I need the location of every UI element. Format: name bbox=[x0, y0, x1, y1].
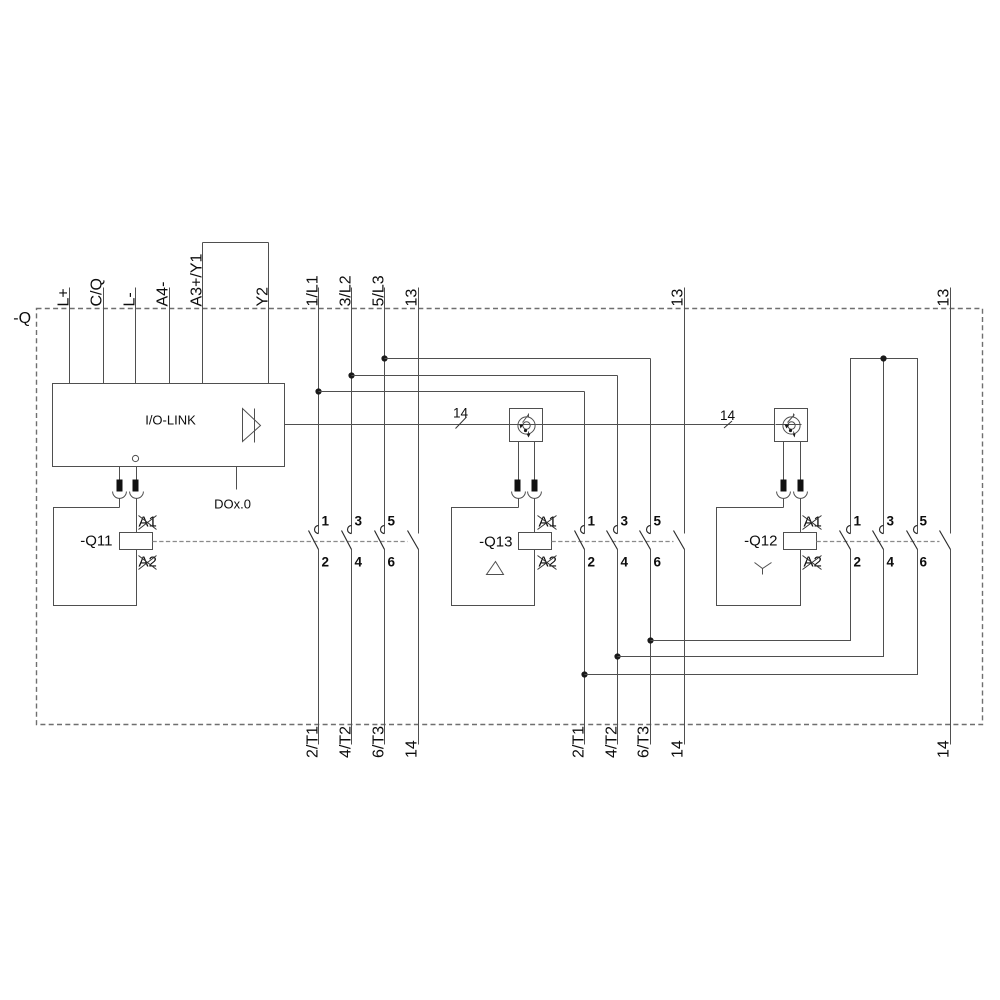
phase wire 2/T1 bottom bbox=[318, 550, 320, 745]
phase wire 4/T2 bottom Q13 bbox=[617, 550, 619, 745]
node dot 1/L1 bbox=[315, 388, 321, 394]
Q12 contact 1-2 bbox=[840, 526, 851, 550]
enclosure dashed boundary -Q bbox=[37, 309, 983, 725]
Q13 contact 1-2 bbox=[575, 526, 585, 550]
star bridge middle wire bbox=[883, 359, 885, 534]
svg-text:4/T2: 4/T2 bbox=[604, 726, 621, 758]
Q11 aux contact 13-14 bbox=[408, 531, 419, 550]
Q12 contact 3-4 bbox=[873, 526, 884, 550]
svg-text:-Q13: -Q13 bbox=[479, 534, 512, 551]
phase wire 4/T2 bottom bbox=[351, 550, 353, 745]
svg-text:5: 5 bbox=[388, 514, 396, 529]
svg-text:A3+/Y1: A3+/Y1 bbox=[189, 253, 206, 306]
wire loop to coil Q11 A2 bbox=[54, 508, 137, 606]
node dot Q13 4/T2 bbox=[614, 653, 620, 659]
terminal label A2 crossed bbox=[538, 554, 557, 571]
terminal label A1 crossed bbox=[803, 514, 822, 531]
pin A3+/Y1 wire bbox=[202, 243, 204, 384]
svg-text:13: 13 bbox=[670, 289, 687, 307]
svg-text:A4-: A4- bbox=[155, 282, 172, 307]
star point bridge wire Q12 bbox=[851, 359, 918, 534]
actuator box of Q13 bbox=[510, 409, 543, 442]
svg-text:14: 14 bbox=[936, 740, 953, 758]
phase wire 6/T3 bottom Q13 bbox=[650, 550, 652, 745]
svg-text:4/T2: 4/T2 bbox=[338, 726, 355, 758]
svg-text:6/T3: 6/T3 bbox=[371, 726, 388, 758]
svg-text:3: 3 bbox=[621, 514, 629, 529]
node dot 5/L3 bbox=[381, 355, 387, 361]
pin Y2 wire bbox=[268, 243, 270, 384]
terminal label A1 crossed bbox=[538, 514, 557, 531]
svg-text:2/T1: 2/T1 bbox=[571, 726, 588, 758]
svg-text:-Q: -Q bbox=[13, 310, 31, 327]
aux wire 14 Q11 bottom bbox=[418, 550, 420, 745]
terminal label A1 crossed bbox=[139, 514, 157, 531]
bridge wire L1 to Q13 contact 1 bbox=[319, 391, 585, 393]
svg-text:6: 6 bbox=[920, 555, 928, 570]
contactor coil Q12 bbox=[784, 533, 817, 550]
IO-Link symbol vertical bar bbox=[254, 409, 256, 443]
connector plug Q13 pin1 bbox=[512, 442, 526, 508]
terminal label A2 crossed bbox=[139, 554, 157, 571]
svg-text:14: 14 bbox=[670, 740, 687, 758]
pin DOx.0 wire bbox=[236, 467, 238, 490]
aux wire 14 Q12 bottom bbox=[950, 550, 952, 745]
phase wire 2/T1 bottom Q13 bbox=[584, 550, 586, 745]
control wire 14 from Q13 to Q12 actuator bbox=[544, 424, 776, 426]
wire inside Q12 actuator bbox=[776, 424, 802, 426]
bridge wire T3 to Q12 contact 2 bbox=[651, 550, 851, 641]
mechanical linkage dashed Q11 bbox=[153, 541, 408, 543]
rotary drive symbol Q13 bbox=[518, 414, 535, 438]
indicator circle on module bbox=[132, 455, 138, 461]
connector plug Q12 pin1 bbox=[777, 442, 791, 508]
Q11 contact 3-4 bbox=[342, 526, 352, 550]
Q13 contact 3-4 bbox=[607, 526, 618, 550]
wire stub inside Q12 actuator bbox=[776, 424, 802, 426]
svg-text:13: 13 bbox=[936, 289, 953, 307]
svg-text:6: 6 bbox=[654, 555, 662, 570]
aux wire 13 Q11 top bbox=[418, 288, 420, 534]
svg-text:L-: L- bbox=[122, 292, 139, 306]
aux wire 13 Q12 top bbox=[950, 288, 952, 534]
wire loop to coil Q13 A2 bbox=[452, 508, 535, 606]
Q13 aux contact 13-14 bbox=[674, 531, 685, 550]
svg-text:-Q11: -Q11 bbox=[80, 533, 112, 550]
contactor coil Q11 bbox=[120, 533, 153, 550]
node dot star bridge bbox=[880, 355, 886, 361]
pin A4- wire bbox=[169, 288, 171, 384]
connector plug Q13 pin2 bbox=[528, 442, 542, 533]
svg-text:3/L2: 3/L2 bbox=[338, 275, 355, 306]
phase wire 1/L1 top bbox=[318, 288, 320, 534]
svg-text:Y2: Y2 bbox=[255, 287, 272, 307]
svg-text:2: 2 bbox=[588, 555, 596, 570]
bridge wire L3 to Q13 contact 5 bbox=[385, 358, 651, 360]
svg-text:6: 6 bbox=[388, 555, 396, 570]
svg-text:2: 2 bbox=[322, 555, 330, 570]
delta symbol bbox=[487, 562, 504, 575]
wire tick 14 bbox=[456, 417, 467, 429]
svg-text:6/T3: 6/T3 bbox=[636, 726, 653, 758]
phase wire 3/L2 top bbox=[351, 288, 353, 534]
control wire 14 from module to Q13 actuator bbox=[285, 424, 510, 426]
rotary drive symbol Q12 bbox=[783, 414, 800, 438]
node dot Q13 2/T1 bbox=[581, 671, 587, 677]
svg-text:14: 14 bbox=[720, 408, 736, 423]
contactor coil Q13 bbox=[519, 533, 552, 550]
connector plug Q12 pin2 bbox=[794, 442, 808, 533]
bridge wire A3+/Y1 to Y2 bbox=[203, 242, 269, 244]
svg-text:1/L1: 1/L1 bbox=[305, 275, 322, 306]
svg-text:14: 14 bbox=[404, 740, 421, 758]
svg-text:1: 1 bbox=[854, 514, 862, 529]
svg-text:DOx.0: DOx.0 bbox=[214, 497, 251, 512]
wire loop to coil Q12 A2 bbox=[717, 508, 801, 606]
svg-text:C/Q: C/Q bbox=[89, 278, 106, 306]
bridge wire T1 to Q12 contact 6 bbox=[585, 550, 918, 675]
Q11 contact 1-2 bbox=[309, 526, 319, 550]
connector plug module pin2 bbox=[130, 467, 144, 533]
svg-text:2/T1: 2/T1 bbox=[305, 726, 322, 758]
svg-text:1: 1 bbox=[588, 514, 596, 529]
svg-text:4: 4 bbox=[355, 555, 363, 570]
bridge wire L2 to Q13 contact 3 bbox=[352, 375, 618, 377]
connector plug module pin1 bbox=[113, 467, 127, 508]
actuator box of Q12 bbox=[775, 409, 808, 442]
svg-text:-Q12: -Q12 bbox=[744, 533, 777, 550]
svg-text:1: 1 bbox=[322, 514, 330, 529]
svg-text:2: 2 bbox=[854, 555, 862, 570]
aux wire 14 Q13 bottom bbox=[684, 550, 686, 745]
pin C/Q wire bbox=[103, 288, 105, 384]
terminal label A2 crossed bbox=[803, 554, 822, 571]
wire tick 14 bbox=[724, 421, 732, 428]
svg-text:5: 5 bbox=[654, 514, 662, 529]
Q12 aux contact 13-14 bbox=[940, 531, 951, 550]
mechanical linkage dashed Q12 bbox=[817, 541, 940, 543]
svg-text:3: 3 bbox=[355, 514, 363, 529]
svg-text:14: 14 bbox=[453, 406, 469, 421]
phase wire 6/T3 bottom bbox=[384, 550, 386, 745]
svg-text:L+: L+ bbox=[56, 288, 73, 306]
Q13 contact 1 feed wire bbox=[584, 392, 586, 534]
star symbol bbox=[755, 563, 772, 575]
mechanical linkage dashed Q13 bbox=[552, 541, 674, 543]
wire through Q13 actuator bbox=[510, 424, 544, 426]
node dot Q13 6/T3 bbox=[647, 637, 653, 643]
svg-text:5: 5 bbox=[920, 514, 928, 529]
Q13 contact 5 feed wire bbox=[650, 359, 652, 534]
pin L+ wire bbox=[69, 288, 71, 384]
svg-text:I/O-LINK: I/O-LINK bbox=[145, 413, 196, 428]
op-amp U1 I/O-LINK module box bbox=[53, 384, 285, 467]
IO-Link buffer triangle symbol bbox=[243, 409, 261, 442]
pin L- wire bbox=[135, 288, 137, 384]
node dot 3/L2 bbox=[348, 372, 354, 378]
aux wire 13 Q13 top bbox=[684, 288, 686, 534]
Q13 contact 3 feed wire bbox=[617, 376, 619, 534]
bridge wire T2 to Q12 contact 4 bbox=[618, 550, 884, 657]
svg-text:5/L3: 5/L3 bbox=[371, 275, 388, 306]
svg-text:3: 3 bbox=[887, 514, 895, 529]
svg-text:13: 13 bbox=[404, 289, 421, 307]
svg-text:4: 4 bbox=[887, 555, 895, 570]
Q12 contact 5-6 bbox=[907, 526, 918, 550]
Q11 contact 5-6 bbox=[375, 526, 385, 550]
svg-text:4: 4 bbox=[621, 555, 629, 570]
phase wire 5/L3 top bbox=[384, 288, 386, 534]
Q13 contact 5-6 bbox=[640, 526, 651, 550]
